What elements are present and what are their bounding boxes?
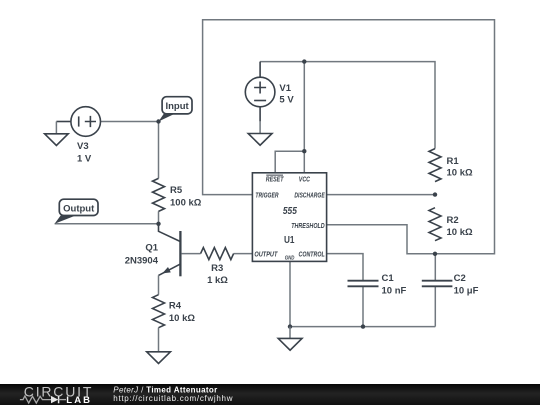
svg-text:GND: GND: [285, 256, 295, 262]
svg-text:R2: R2: [447, 215, 459, 226]
svg-text:R1: R1: [447, 156, 460, 167]
svg-text:1 kΩ: 1 kΩ: [207, 275, 228, 286]
ground at R4: [147, 328, 171, 364]
svg-text:5 V: 5 V: [279, 95, 294, 106]
ground at V1: [248, 121, 272, 145]
wire C2 bottom lead: [434, 287, 436, 327]
wire ground rail: [290, 326, 435, 328]
resistor R5: [153, 178, 165, 211]
wire TRIGGER-THRESHOLD loop: [203, 20, 495, 254]
svg-text:RESET: RESET: [266, 176, 284, 183]
svg-text:10 kΩ: 10 kΩ: [169, 313, 195, 324]
node Output flag: [55, 199, 98, 224]
svg-text:VCC: VCC: [299, 176, 311, 183]
svg-text:LAB: LAB: [66, 395, 92, 405]
wire CONTROL to C1: [327, 254, 363, 280]
transistor Q1: [159, 224, 181, 295]
svg-text:R4: R4: [169, 301, 182, 312]
label Q1 value: [125, 242, 159, 266]
svg-text:10 nF: 10 nF: [382, 285, 407, 296]
label R3 value: [207, 263, 228, 286]
op-amp U1 555 timer box: [252, 173, 326, 262]
wire V1 top rail to R1: [260, 62, 435, 149]
svg-text:V3: V3: [77, 141, 89, 152]
svg-text:C2: C2: [454, 273, 466, 284]
svg-text:10 kΩ: 10 kΩ: [447, 168, 473, 179]
footer bar: [0, 384, 540, 405]
logo resistor zigzag: [20, 396, 51, 403]
svg-text:R5: R5: [170, 185, 183, 196]
wire C2 top lead: [434, 254, 436, 280]
svg-text:U1: U1: [284, 234, 295, 246]
svg-text:C1: C1: [382, 273, 395, 284]
label R4 value: [169, 301, 195, 324]
svg-text:2N3904: 2N3904: [125, 255, 159, 266]
ground at U1 GND: [278, 327, 302, 351]
svg-text:10 μF: 10 μF: [454, 285, 479, 296]
svg-text:http://circuitlab.com/cfwjhhw: http://circuitlab.com/cfwjhhw: [113, 394, 233, 403]
svg-text:Q1: Q1: [145, 242, 158, 253]
junction GND rail at U1: [288, 324, 292, 328]
resistor R4: [153, 295, 165, 328]
junction Input node: [156, 119, 160, 123]
logo diode: [51, 396, 66, 403]
svg-text:10 kΩ: 10 kΩ: [447, 227, 473, 238]
label C1 value: [382, 273, 407, 296]
junction VCC top rail: [302, 59, 306, 63]
svg-text:TRIGGER: TRIGGER: [255, 193, 278, 200]
wire Input node down to R5: [158, 122, 160, 179]
junction R1/R2/DISCHARGE: [433, 192, 437, 196]
wire DISCHARGE to R1/R2 node: [327, 194, 435, 196]
label V3 value: [77, 141, 92, 164]
svg-text:Input: Input: [165, 101, 189, 112]
wire V3 right lead to Input node: [101, 121, 159, 123]
ground at V3: [45, 122, 69, 146]
svg-text:V1: V1: [279, 83, 291, 94]
node Input flag: [159, 97, 193, 122]
svg-text:OUTPUT: OUTPUT: [254, 251, 278, 258]
wire GND pin down: [289, 261, 291, 326]
label R1 value: [447, 156, 473, 179]
label R5 value: [170, 185, 202, 208]
wire VCC drop: [303, 62, 305, 173]
wire R5 bottom to Output node: [158, 211, 160, 223]
pin label RESET: [266, 175, 284, 183]
label C2 value: [454, 273, 479, 296]
voltage source V3: [56, 107, 100, 137]
junction VCC/RESET branch: [302, 149, 306, 153]
svg-text:100 kΩ: 100 kΩ: [170, 198, 202, 209]
capacitor C2: [422, 281, 453, 287]
svg-text:CONTROL: CONTROL: [299, 251, 325, 258]
wire C1 bottom lead: [362, 287, 364, 327]
svg-text:THRESHOLD: THRESHOLD: [291, 223, 325, 230]
svg-text:Output: Output: [63, 204, 95, 215]
junction Output node: [156, 222, 160, 226]
junction C1 bottom: [361, 324, 365, 328]
label R2 value: [447, 215, 473, 238]
resistor R2: [429, 208, 441, 241]
svg-text:1 V: 1 V: [77, 153, 92, 164]
wire RESET branch: [275, 151, 304, 173]
svg-text:R3: R3: [211, 263, 223, 274]
wire Q1 base to R3: [182, 253, 201, 255]
resistor R3: [201, 248, 234, 260]
junction R2/C2/THRESHOLD: [433, 252, 437, 256]
resistor R1: [429, 149, 441, 182]
svg-text:DISCHARGE: DISCHARGE: [294, 193, 325, 200]
wire R3 to OUTPUT pin of U1: [234, 253, 253, 255]
capacitor C1: [348, 281, 379, 287]
label V1 value: [279, 83, 294, 106]
voltage source V1: [245, 62, 275, 122]
svg-text:555: 555: [283, 205, 297, 217]
wire Output node left run: [55, 223, 159, 225]
